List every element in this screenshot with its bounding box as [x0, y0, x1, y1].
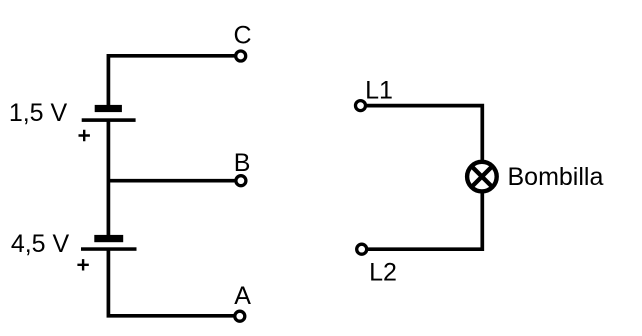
- wire: terminal L1 to lamp: [366, 106, 482, 162]
- terminal L2: [357, 244, 367, 254]
- svg-text:1,5 V: 1,5 V: [9, 99, 68, 127]
- svg-text:A: A: [234, 282, 251, 310]
- wire: battery B1 top to terminal C: [108, 56, 236, 106]
- battery B2 4,5 V positive plate: [94, 235, 123, 242]
- svg-text:Bombilla: Bombilla: [508, 163, 604, 191]
- battery B2 polarity +: [77, 259, 88, 270]
- terminal L1: [356, 101, 366, 111]
- battery B1 polarity +: [79, 130, 90, 141]
- wire: vertical bus B1 bottom to B2 top with junction: [107, 120, 111, 236]
- svg-text:L1: L1: [365, 77, 393, 105]
- lamp Bombilla: [467, 162, 497, 192]
- wire: battery B2 bottom to terminal A: [108, 249, 236, 316]
- battery B1 1,5 V positive plate: [95, 105, 122, 112]
- wire: lamp to terminal L2: [367, 191, 482, 249]
- svg-text:C: C: [233, 22, 251, 50]
- terminal C: [236, 51, 246, 61]
- svg-text:L2: L2: [369, 258, 397, 286]
- battery B2 4,5 V negative plate: [81, 247, 137, 251]
- wire: junction to terminal B: [108, 179, 236, 183]
- svg-text:4,5 V: 4,5 V: [11, 230, 70, 258]
- terminal A: [235, 311, 245, 321]
- battery B1 1,5 V negative plate: [82, 118, 136, 122]
- svg-text:B: B: [234, 149, 251, 177]
- terminal B: [236, 176, 246, 186]
